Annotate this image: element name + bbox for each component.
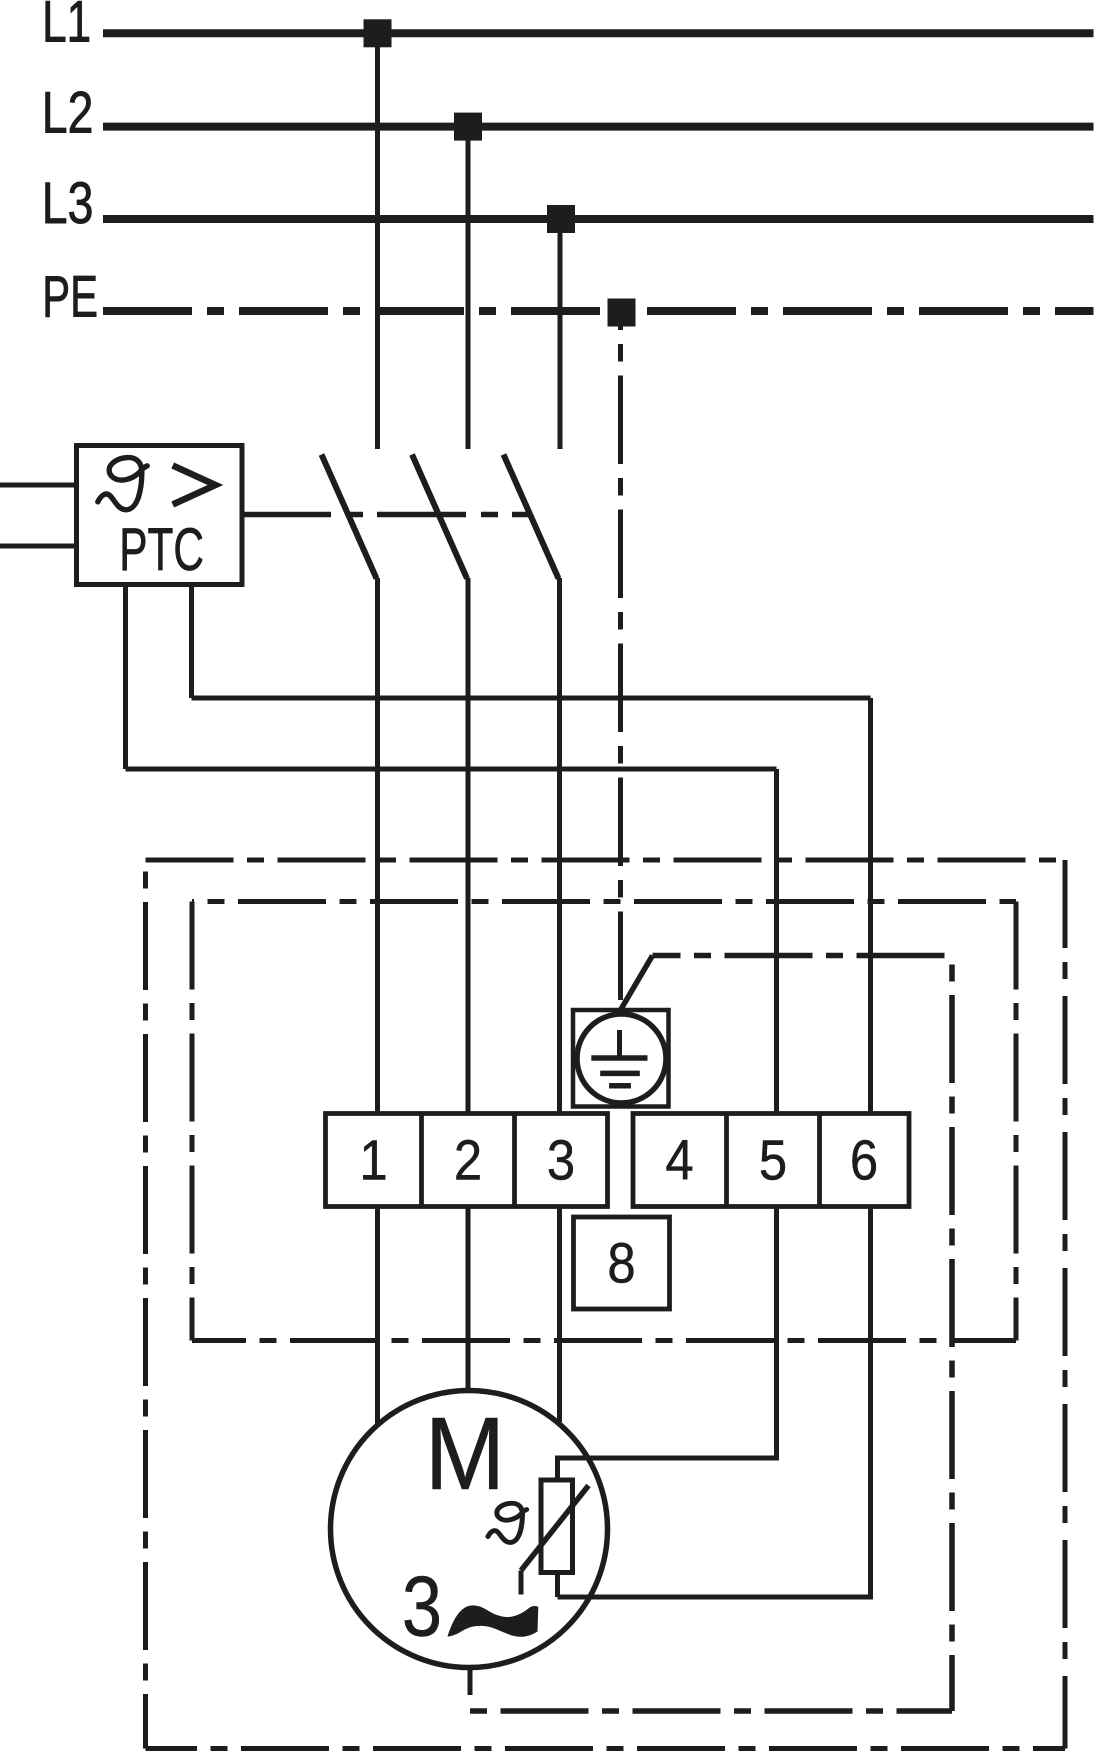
PTC relay left input wire upper (0, 483, 77, 488)
earth symbol bar 1 (591, 1055, 647, 1061)
svg-text:4: 4 (665, 1129, 693, 1192)
wire terminal 5 column upper (774, 769, 779, 1116)
terminal 8 box (574, 1217, 670, 1309)
switch Q1 pole 2 blade (412, 455, 467, 579)
wire horizontal run to terminal 5 column (126, 767, 777, 772)
junction node on PE (608, 299, 636, 327)
earth symbol bar 3 (609, 1083, 631, 1089)
earth symbol circle (577, 1014, 666, 1103)
wire L1 to switch pole 1 (375, 33, 380, 449)
enclosure outer boundary left edge (dash-dot) (143, 860, 148, 1749)
enclosure inner boundary left edge (dash-dot) (190, 902, 195, 1341)
enclosure outer boundary right edge (dash-dot) (1063, 860, 1068, 1749)
PTC relay left input wire lower (0, 544, 77, 549)
enclosure inner boundary top edge (dash-dot) (192, 899, 1016, 904)
wire horizontal run to terminal 6 column (192, 696, 871, 701)
enclosure inner boundary bottom edge (dash-dot) (192, 1338, 1016, 1343)
earth symbol enclosure square (573, 1010, 669, 1107)
wire terminal 6 column upper (868, 698, 873, 1116)
earth branch dash-dot run down right side (949, 956, 955, 1712)
switch Q1 pole 3 blade (504, 455, 559, 579)
svg-text:L1: L1 (42, 0, 91, 54)
svg-text:8: 8 (607, 1232, 635, 1295)
svg-text:PE: PE (42, 264, 98, 329)
bus line PE (dash-dot) (103, 307, 1094, 315)
svg-text:L2: L2 (42, 81, 94, 146)
enclosure outer boundary bottom edge (dash-dot) (146, 1746, 1066, 1751)
thermistor diagonal foot (519, 1571, 524, 1595)
motor PE bottom stub (468, 1665, 473, 1695)
wire switch pole 3 to terminal 3 (557, 578, 562, 1116)
svg-text:L3: L3 (42, 171, 94, 236)
enclosure outer boundary top edge (dash-dot) (146, 858, 1066, 863)
motor theta symbol (488, 1503, 527, 1542)
junction node on L2 (454, 113, 482, 141)
motor tilde (3-phase wave) (448, 1605, 539, 1636)
svg-text:6: 6 (850, 1129, 878, 1192)
wire switch pole 2 to terminal 2 (466, 578, 471, 1116)
terminal divider 2|3 (512, 1114, 517, 1207)
wire L2 to switch pole 2 (466, 127, 471, 449)
junction node on L3 (547, 205, 575, 233)
terminal block 4-6 box (633, 1114, 909, 1207)
wire PTC output left down (123, 585, 128, 770)
earth branch diagonal lead (621, 956, 653, 1011)
PTC relay theta symbol (98, 458, 147, 510)
terminal divider 1|2 (419, 1114, 424, 1207)
wire terminal 6 to thermistor bottom (558, 1205, 871, 1598)
wire L3 to switch pole 3 (558, 219, 563, 449)
earth symbol stem (617, 1030, 622, 1059)
wire terminal 1 to motor (375, 1205, 380, 1426)
thermistor bottom stub (555, 1572, 560, 1597)
wire terminal 5 to thermistor top (558, 1205, 777, 1482)
terminal block 1-3 box (326, 1114, 608, 1207)
earth branch dash-dot run rightward (653, 953, 953, 959)
switch Q1 pole 1 blade (322, 455, 377, 579)
svg-text:3: 3 (547, 1129, 575, 1192)
svg-text:3: 3 (402, 1559, 442, 1654)
wire terminal 3 to motor (557, 1205, 562, 1423)
junction node on L1 (364, 19, 392, 47)
earth branch dash-dot run to motor bottom (470, 1708, 952, 1714)
svg-text:1: 1 (359, 1129, 387, 1192)
svg-text:2: 2 (454, 1129, 482, 1192)
svg-text:5: 5 (759, 1129, 787, 1192)
bus line L3 (103, 215, 1094, 223)
wire switch pole 1 to terminal 1 (375, 578, 380, 1116)
terminal divider 5|6 (817, 1114, 822, 1207)
bus line L2 (103, 123, 1094, 131)
bus line L1 (103, 29, 1094, 37)
svg-text:PTC: PTC (119, 517, 204, 584)
thermistor diagonal strike (521, 1486, 589, 1571)
PTC relay greater-than symbol (173, 466, 216, 505)
svg-text:M: M (425, 1397, 506, 1511)
enclosure inner boundary right edge (dash-dot) (1014, 902, 1019, 1341)
wire terminal 2 to motor (466, 1205, 471, 1392)
PTC relay F1 box (77, 446, 243, 585)
wire PE drop (dash-dot) to earth symbol (618, 313, 623, 1011)
thermistor RT rectangle (541, 1480, 573, 1573)
motor M1 circle (331, 1391, 608, 1668)
switch Q1 mechanical linkage (dash-dot) (242, 512, 531, 518)
earth symbol bar 2 (600, 1071, 640, 1077)
wire PTC output right down (189, 585, 194, 699)
terminal divider 4|5 (724, 1114, 729, 1207)
